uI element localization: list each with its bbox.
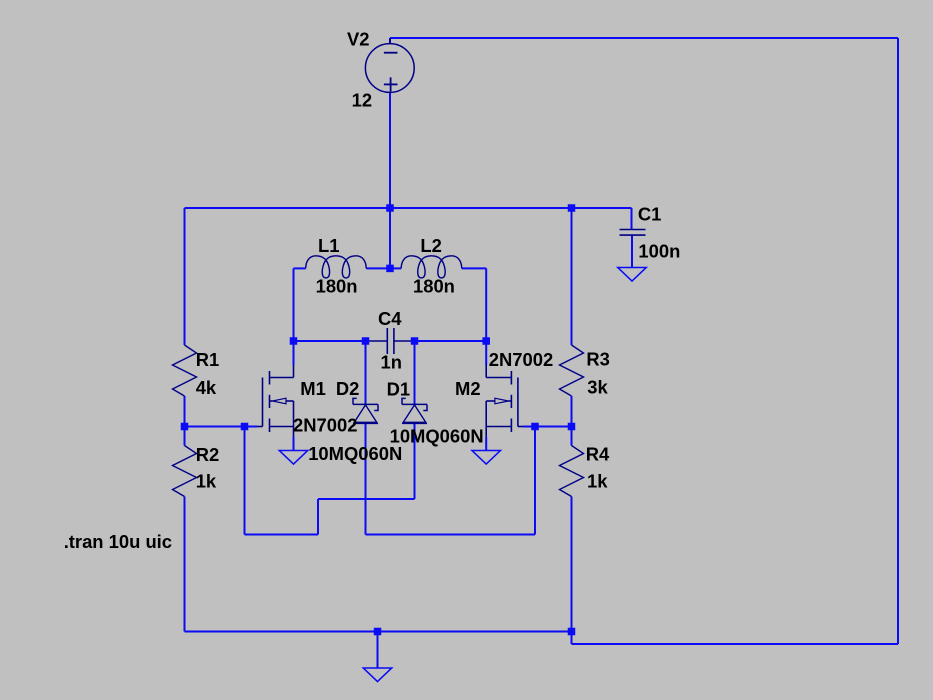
wire: C1 top lead — [631, 208, 633, 230]
junction: ground tap — [374, 628, 382, 636]
wire: R4 bottom lead — [571, 497, 573, 632]
ground at bottom rail — [363, 668, 391, 682]
resistor R1 — [173, 345, 197, 396]
diode D1 (schottky 10MQ060N) — [402, 398, 427, 423]
wire: crossover upper — [318, 498, 415, 500]
inductor L1 — [306, 256, 367, 278]
svg-text:3k: 3k — [587, 376, 608, 397]
svg-text:1k: 1k — [587, 471, 608, 492]
svg-text:1n: 1n — [381, 352, 402, 373]
junction: R3-R4 divider — [568, 423, 576, 431]
wire: top-right rail from V2 to right edge — [390, 37, 898, 39]
wire: supply rail y=208 — [185, 207, 632, 209]
junction: C4 left / D2 cathode — [362, 337, 370, 345]
wire: M2 source to ground — [485, 437, 487, 451]
svg-text:4k: 4k — [196, 377, 217, 398]
svg-text:R2: R2 — [196, 444, 220, 465]
wire: M2 gate row — [523, 426, 572, 428]
svg-text:10MQ060N: 10MQ060N — [308, 443, 402, 464]
wire: right edge down — [897, 38, 899, 644]
wire: ground rail y=631.5 — [185, 631, 572, 633]
wire: L1 left lead — [294, 267, 306, 269]
ground under C1 — [618, 268, 646, 282]
wire: M1 gate row — [185, 426, 258, 428]
svg-text:2N7002: 2N7002 — [489, 349, 553, 370]
wire: R2 bottom lead to ground rail — [184, 497, 186, 632]
resistor R3 — [560, 345, 584, 396]
svg-text:C4: C4 — [378, 308, 402, 329]
junction: M2 gate node — [531, 423, 539, 431]
ground under M2 source — [472, 451, 500, 465]
wire: D2 cathode up to C4 node — [365, 341, 367, 404]
transistor M2 (NMOS 2N7002, mirrored) — [486, 365, 523, 437]
wire: R1 bottom lead — [184, 396, 186, 427]
junction: L1/M1 drain — [290, 337, 298, 345]
svg-text:C1: C1 — [638, 204, 662, 225]
wire: L2 right down to drain rail — [485, 268, 487, 341]
wire: L1 left down to drain rail — [293, 268, 295, 341]
junction: C4 right / D1 cathode — [411, 337, 419, 345]
junction: ground rail / V- return — [568, 628, 576, 636]
wire: C1 bottom lead — [631, 235, 633, 267]
junction: R1-R2 divider — [181, 423, 189, 431]
wire: M2 drain stub — [485, 341, 487, 365]
wire: ground tap stub — [377, 632, 379, 669]
wire: D1 anode down — [414, 423, 416, 499]
wire: R4 top lead — [571, 427, 573, 446]
svg-text:1k: 1k — [196, 471, 217, 492]
wire: drain rail right segment — [415, 340, 487, 342]
voltage source V2 — [365, 39, 414, 93]
wire: M1 gate node down — [244, 427, 246, 535]
resistor R4 — [560, 446, 584, 497]
svg-text:D2: D2 — [336, 378, 360, 399]
junction: supply rail / R3-C1 — [568, 204, 576, 212]
resistor R2 — [173, 446, 197, 497]
svg-text:R1: R1 — [196, 349, 220, 370]
wire: R3 top lead from supply rail — [571, 208, 573, 345]
diode D2 (schottky 10MQ060N) — [353, 398, 378, 423]
wire: left rail down to R1 — [184, 208, 186, 345]
wire: R2 top lead — [184, 427, 186, 446]
capacitor C1 — [620, 230, 646, 236]
wire: L1 right lead to center node — [366, 267, 390, 269]
wire: M2 gate node down — [534, 427, 536, 535]
svg-text:M2: M2 — [455, 378, 481, 399]
junction: M1 gate node — [241, 423, 249, 431]
svg-text:.tran 10u uic: .tran 10u uic — [64, 531, 172, 552]
svg-text:12: 12 — [352, 89, 372, 110]
wire: D2 anode down — [365, 423, 367, 534]
wire: jog up to bottom rail junction — [571, 632, 573, 645]
inductor L2 — [401, 256, 462, 278]
svg-text:180n: 180n — [413, 276, 455, 297]
wire: V2 plus stub to top rail — [389, 38, 391, 44]
wire: M1 source to ground — [293, 437, 295, 451]
svg-text:100n: 100n — [638, 241, 680, 262]
junction: L1-L2 center tap — [386, 265, 394, 273]
svg-text:R4: R4 — [586, 443, 610, 464]
wire: V2 minus lead down to supply rail — [389, 93, 391, 269]
svg-text:M1: M1 — [300, 378, 326, 399]
wire: L2 left lead from center node — [390, 267, 401, 269]
wire: D1 cathode up to C4 node — [414, 341, 416, 404]
svg-text:D1: D1 — [387, 378, 411, 399]
wire: crossover lower left — [245, 534, 319, 536]
svg-text:180n: 180n — [316, 276, 358, 297]
wire: drain rail left segment — [294, 340, 366, 342]
svg-text:2N7002: 2N7002 — [293, 415, 357, 436]
wire: M1 drain stub — [293, 341, 295, 365]
transistor M1 (NMOS 2N7002) — [257, 365, 294, 437]
svg-text:L1: L1 — [318, 235, 339, 256]
wire: bottom-right return — [572, 643, 899, 645]
wire: R3 bottom lead — [571, 396, 573, 427]
svg-text:R3: R3 — [586, 349, 610, 370]
wire: crossover lower right — [366, 534, 536, 536]
wire: L2 right lead — [462, 267, 487, 269]
wire: crossover riser — [317, 499, 319, 535]
svg-text:V2: V2 — [347, 28, 370, 49]
svg-text:L2: L2 — [420, 235, 441, 256]
ground under M1 source — [279, 451, 307, 465]
junction: supply rail / V2 — [386, 204, 394, 212]
capacitor C4 — [366, 328, 415, 354]
svg-text:10MQ060N: 10MQ060N — [390, 425, 484, 446]
wire: C1 corner on supply rail — [572, 207, 632, 209]
junction: L2/M2 drain — [482, 337, 490, 345]
